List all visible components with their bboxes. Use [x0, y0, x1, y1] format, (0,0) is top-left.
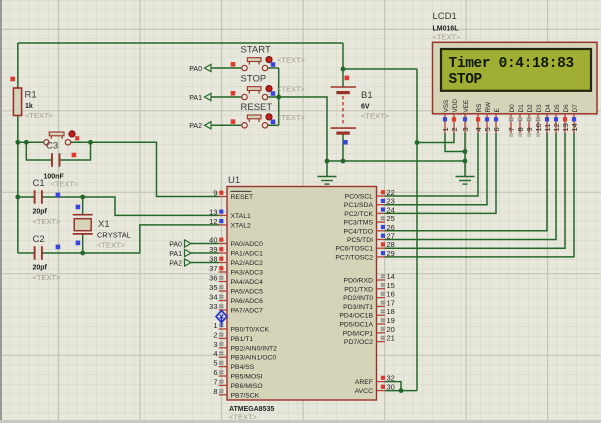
wire to XTAL1 [83, 197, 219, 215]
svg-text:29: 29 [387, 249, 395, 258]
svg-text:PC7/TOSC2: PC7/TOSC2 [335, 254, 373, 261]
wire PC0 to LCD RS [385, 133, 478, 196]
svg-text:32: 32 [387, 374, 395, 383]
push button RESET [248, 119, 250, 122]
microcontroller U1 body [227, 187, 377, 401]
svg-text:PA1/ADC1: PA1/ADC1 [231, 251, 264, 258]
svg-text:24: 24 [387, 205, 395, 214]
svg-text:<TEXT>: <TEXT> [33, 273, 62, 282]
svg-text:6: 6 [492, 127, 501, 131]
LCD pin 5 RW [483, 101, 492, 133]
wire PC6 to LCD D6 [385, 133, 565, 248]
LCD pin 6 E [492, 108, 501, 133]
svg-text:18: 18 [387, 307, 395, 316]
svg-text:38: 38 [209, 255, 217, 264]
svg-text:13: 13 [209, 207, 217, 216]
svg-text:13: 13 [561, 123, 570, 131]
svg-text:3: 3 [461, 127, 470, 131]
svg-text:5: 5 [483, 127, 492, 131]
marker B1 red [345, 76, 350, 81]
svg-text:1k: 1k [25, 103, 33, 110]
svg-text:PD4/OC1B: PD4/OC1B [339, 313, 373, 320]
terminal PA1 at MCU [185, 249, 192, 256]
junction C3 branch left [24, 140, 29, 145]
marker button red circle aux [75, 136, 79, 140]
svg-text:36: 36 [209, 274, 217, 283]
wire C1 left [18, 196, 35, 198]
LCD pin 12 D5 [552, 104, 561, 133]
pin 9 RESET [213, 189, 253, 202]
wire PC5 to LCD D5 [385, 133, 556, 240]
svg-text:14: 14 [387, 272, 395, 281]
svg-text:PB7/SCK: PB7/SCK [231, 392, 260, 399]
svg-text:PA2: PA2 [189, 123, 202, 130]
LCD pin 9 D2 [525, 104, 534, 137]
svg-text:CRYSTAL: CRYSTAL [97, 231, 131, 240]
pin 6 PB5/MOSI [213, 368, 262, 381]
wire ground rail [327, 160, 465, 162]
svg-text:D1: D1 [518, 104, 525, 113]
junction crystal top [80, 195, 85, 200]
svg-text:<TEXT>: <TEXT> [97, 241, 126, 250]
svg-text:27: 27 [387, 232, 395, 241]
svg-text:PC5/TDI: PC5/TDI [347, 237, 373, 244]
svg-text:7: 7 [507, 127, 516, 131]
svg-text:LCD1: LCD1 [433, 11, 457, 22]
svg-text:PB5/MOSI: PB5/MOSI [231, 374, 263, 381]
pin 14 PD0/RXD [344, 272, 395, 285]
LCD pin 11 D4 [543, 104, 552, 133]
pin 2 PB1/T1 [213, 330, 253, 343]
wire PC4 to LCD D4 [385, 133, 547, 231]
capacitor C3 plates [51, 153, 53, 167]
svg-text:RESET: RESET [231, 194, 254, 201]
svg-text:4: 4 [474, 127, 483, 131]
pin 37 PA3/ADC3 [209, 264, 263, 277]
svg-text:PA1: PA1 [189, 95, 202, 102]
capacitor C2 [34, 246, 36, 260]
wire VCC top rail [18, 42, 343, 44]
svg-text:C3: C3 [46, 141, 58, 152]
terminal PA0 at MCU [185, 240, 192, 247]
terminal PA1 at button [205, 93, 212, 100]
svg-text:6: 6 [213, 368, 217, 377]
wire VCC to LCD column [343, 68, 417, 70]
svg-text:19: 19 [387, 316, 395, 325]
wire ground stub [326, 161, 328, 177]
pin 22 PC0/SCL [345, 188, 395, 201]
svg-text:21: 21 [387, 334, 395, 343]
wire R1 top lead [17, 43, 19, 88]
pin 35 PA5/ADC5 [209, 283, 263, 296]
LCD pin 3 VEE [461, 100, 470, 133]
svg-text:PB2/AIN0/INT2: PB2/AIN0/INT2 [231, 345, 278, 352]
LCD pin 10 D3 [534, 104, 543, 137]
svg-text:PA4/ADC4: PA4/ADC4 [231, 279, 264, 286]
wire to reset button left [18, 141, 44, 143]
terminal PA2 at button [205, 122, 212, 129]
svg-text:D0: D0 [509, 104, 516, 113]
svg-text:33: 33 [209, 302, 217, 311]
pin 23 PC1/SDA [344, 197, 395, 210]
svg-text:X1: X1 [98, 219, 110, 230]
svg-text:B1: B1 [361, 90, 373, 101]
marker C2 blue [56, 245, 61, 250]
svg-text:Timer 0:4:18:83: Timer 0:4:18:83 [449, 56, 574, 72]
junction crystal bottom [80, 251, 85, 256]
svg-text:STOP: STOP [241, 74, 267, 85]
pin 8 PB7/SCK [213, 387, 259, 400]
LCD pin 1 VSS [441, 100, 450, 133]
pin 26 PC4/TDO [344, 223, 395, 236]
svg-text:<TEXT>: <TEXT> [25, 111, 54, 120]
wire RESET button to common [268, 124, 279, 126]
wire C3 branch left [26, 142, 52, 160]
junction buttons common [276, 95, 281, 100]
wire crystal top lead [82, 197, 84, 215]
marker RESET blue [271, 120, 276, 125]
capacitor C1 [34, 190, 36, 204]
svg-text:PA0/ADC0: PA0/ADC0 [231, 241, 264, 248]
svg-text:PB1/T1: PB1/T1 [231, 336, 254, 343]
svg-text:C2: C2 [33, 234, 45, 245]
pin 39 PA1/ADC1 [209, 245, 263, 258]
wire AREF to AVCC [385, 382, 401, 391]
marker C3 red [72, 153, 77, 158]
terminal PA2 at MCU [185, 259, 192, 266]
pin 19 PD5/OC1A [339, 316, 394, 329]
resistor R1 [13, 88, 21, 116]
svg-text:1: 1 [441, 127, 450, 131]
pin 33 PA7/ADC7 [209, 302, 263, 315]
svg-text:<TEXT>: <TEXT> [277, 85, 306, 94]
LCD pin 2 VDD [450, 99, 459, 133]
wire PA0 terminal to START [211, 67, 242, 69]
svg-text:PA7/ADC7: PA7/ADC7 [231, 308, 264, 315]
wire PA0 to MCU [191, 243, 219, 245]
svg-text:PD7/OC2: PD7/OC2 [344, 339, 373, 346]
svg-text:PA3/ADC3: PA3/ADC3 [231, 270, 264, 277]
junction VSS VEE [463, 149, 468, 154]
svg-text:11: 11 [543, 124, 552, 132]
svg-text:23: 23 [387, 197, 395, 206]
push button START [248, 62, 250, 65]
svg-text:8: 8 [516, 127, 525, 131]
svg-text:PD6/ICP1: PD6/ICP1 [343, 330, 373, 337]
svg-text:2: 2 [450, 127, 459, 131]
svg-text:XTAL1: XTAL1 [231, 213, 251, 220]
svg-text:PC2/TCK: PC2/TCK [344, 211, 373, 218]
pin 7 PB6/MISO [213, 377, 262, 390]
marker X1 blue top [76, 205, 81, 210]
LCD pin 14 D7 [570, 104, 579, 133]
pin 16 PD2/INT0 [343, 290, 395, 303]
pin 18 PD4/OC1B [339, 307, 394, 320]
junction ground rail left [325, 159, 330, 164]
svg-text:PA0: PA0 [169, 241, 182, 248]
svg-text:<TEXT>: <TEXT> [361, 112, 390, 121]
wire C2 to crystal bottom [42, 252, 83, 254]
wire LCD VEE to ground [464, 133, 466, 177]
svg-text:<TEXT>: <TEXT> [33, 217, 62, 226]
wire STOP to common [268, 96, 279, 98]
svg-text:28: 28 [387, 240, 395, 249]
svg-text:20pf: 20pf [33, 209, 48, 216]
crystal X1 [73, 214, 93, 216]
wire AVCC [385, 390, 417, 392]
svg-text:<TEXT>: <TEXT> [277, 113, 306, 122]
marker STOP wire red [231, 91, 236, 96]
svg-text:39: 39 [209, 245, 217, 254]
pin 27 PC5/TDI [347, 232, 395, 245]
svg-text:PA0: PA0 [189, 66, 202, 73]
wire PA1 terminal to STOP [211, 96, 242, 98]
svg-text:34: 34 [209, 293, 217, 302]
svg-text:PD5/OC1A: PD5/OC1A [339, 322, 373, 329]
junction battery negative [341, 159, 346, 164]
svg-text:XTAL2: XTAL2 [231, 222, 251, 229]
push button STOP [248, 91, 250, 94]
svg-text:START: START [241, 45, 271, 56]
pin 32 AREF [355, 374, 395, 387]
svg-text:D2: D2 [527, 104, 534, 113]
LCD LM016L body [433, 42, 598, 114]
junction VCC battery [341, 67, 346, 72]
svg-text:U1: U1 [228, 175, 240, 186]
svg-text:AVCC: AVCC [355, 388, 373, 395]
svg-text:15: 15 [387, 281, 395, 290]
svg-text:20: 20 [387, 325, 395, 334]
svg-text:PC3/TMS: PC3/TMS [344, 220, 374, 227]
pin 17 PD3/INT1 [343, 298, 395, 311]
svg-text:17: 17 [387, 298, 395, 307]
svg-text:STOP: STOP [449, 72, 483, 88]
svg-text:RESET: RESET [241, 102, 273, 113]
marker START blue [271, 62, 276, 67]
svg-text:9: 9 [525, 127, 534, 131]
pin 30 AVCC [355, 383, 395, 396]
svg-text:22: 22 [387, 188, 395, 197]
svg-text:AREF: AREF [355, 379, 373, 386]
LCD pin 4 RS [474, 104, 483, 133]
svg-text:R1: R1 [25, 90, 37, 101]
svg-text:8: 8 [213, 387, 217, 396]
svg-text:12: 12 [209, 217, 217, 226]
svg-text:2: 2 [213, 330, 217, 339]
svg-text:VSS: VSS [443, 100, 450, 113]
wire START to common [268, 67, 279, 69]
svg-text:PA5/ADC5: PA5/ADC5 [231, 289, 264, 296]
svg-text:7: 7 [213, 377, 217, 386]
pin 15 PD1/TXD [344, 281, 395, 294]
pin 5 PB4/SS [213, 359, 254, 372]
wire battery positive lead [342, 43, 344, 87]
svg-text:1: 1 [213, 321, 217, 330]
svg-text:PA1: PA1 [169, 251, 182, 258]
pin 34 PA6/ADC6 [209, 293, 263, 306]
svg-text:D6: D6 [563, 104, 570, 113]
svg-text:<TEXT>: <TEXT> [51, 180, 80, 189]
wire buttons common to ground rail [279, 97, 327, 161]
junction reset net left [15, 140, 20, 145]
marker START wire red [231, 62, 236, 67]
svg-text:20pf: 20pf [33, 265, 48, 272]
wire VCC vertical to AVCC [416, 69, 418, 391]
svg-text:10: 10 [534, 123, 543, 131]
ground below LCD VEE [456, 176, 475, 178]
LCD pin 13 D6 [561, 104, 570, 133]
pin 4 PB3/AIN1/OC0 [213, 349, 276, 362]
svg-text:PC1/SDA: PC1/SDA [344, 202, 374, 209]
svg-text:<TEXT>: <TEXT> [229, 413, 258, 422]
pin 1 origin marker [216, 311, 227, 323]
wire to XTAL2 [83, 225, 219, 253]
svg-text:PC6/TOSC1: PC6/TOSC1 [335, 246, 373, 253]
svg-text:D3: D3 [536, 104, 543, 113]
svg-text:RS: RS [476, 104, 483, 113]
svg-text:37: 37 [209, 264, 217, 273]
pin 25 PC3/TMS [344, 214, 395, 227]
svg-text:VDD: VDD [452, 99, 459, 113]
wire PC1 to LCD RW [385, 133, 487, 205]
junction C1 left [15, 195, 20, 200]
svg-text:D4: D4 [545, 104, 552, 113]
junction C3 branch right [88, 140, 93, 145]
marker B1 blue [343, 140, 348, 145]
svg-text:PD1/TXD: PD1/TXD [344, 286, 373, 293]
marker C1 blue [56, 193, 61, 198]
svg-text:30: 30 [387, 383, 395, 392]
pin 36 PA4/ADC4 [209, 274, 263, 287]
wire left vertical R1 to C2 [17, 116, 19, 253]
pin 29 PC7/TOSC2 [335, 249, 395, 262]
wire battery negative lead [342, 135, 344, 162]
svg-text:<TEXT>: <TEXT> [277, 56, 306, 65]
pin 12 XTAL2 [209, 217, 251, 230]
svg-text:6V: 6V [361, 104, 370, 111]
svg-text:C1: C1 [33, 178, 45, 189]
svg-text:PD0/RXD: PD0/RXD [344, 278, 374, 285]
pin 28 PC6/TOSC1 [335, 240, 395, 253]
wire buttons common vertical [278, 68, 280, 125]
LCD pin 8 D1 [516, 104, 525, 137]
svg-text:5: 5 [213, 359, 217, 368]
svg-text:PA2/ADC2: PA2/ADC2 [231, 260, 264, 267]
svg-text:16: 16 [387, 290, 395, 299]
svg-text:14: 14 [570, 123, 579, 131]
marker X1 blue bottom [76, 241, 81, 246]
svg-text:VEE: VEE [463, 100, 470, 113]
terminal PA0 at button [205, 64, 212, 71]
pin 20 PD6/ICP1 [343, 325, 395, 338]
wire C1 to crystal top [42, 196, 83, 198]
wire C3 branch right [60, 142, 91, 160]
svg-text:40: 40 [209, 236, 217, 245]
svg-text:35: 35 [209, 283, 217, 292]
svg-text:PB3/AIN1/OC0: PB3/AIN1/OC0 [231, 355, 277, 362]
pin 21 PD7/OC2 [344, 334, 395, 347]
svg-text:PB4/SS: PB4/SS [231, 364, 255, 371]
svg-text:12: 12 [552, 123, 561, 131]
svg-text:4: 4 [213, 349, 217, 358]
svg-text:E: E [494, 108, 501, 112]
svg-text:PB0/T0/XCK: PB0/T0/XCK [231, 327, 270, 334]
wire PC7 to LCD D7 [385, 133, 574, 257]
svg-text:PD2/INT0: PD2/INT0 [343, 295, 373, 302]
marker R1 [10, 77, 15, 82]
svg-text:26: 26 [387, 223, 395, 232]
push button on reset net [50, 136, 52, 139]
svg-text:PA2: PA2 [169, 260, 182, 267]
wire PA1 to MCU [191, 252, 219, 254]
wire PA2 terminal to RESET button [211, 124, 242, 126]
wire LCD VDD to VCC [417, 133, 454, 143]
wire reset net to MCU RESET pin [71, 142, 219, 196]
svg-text:PB6/MISO: PB6/MISO [231, 383, 263, 390]
pin 38 PA2/ADC2 [209, 255, 263, 268]
LCD pin 7 D0 [507, 104, 516, 137]
wire C2 left [18, 252, 35, 254]
LCD screen [441, 49, 591, 91]
svg-text:D5: D5 [554, 104, 561, 113]
svg-text:<TEXT>: <TEXT> [433, 33, 462, 42]
pin 13 XTAL1 [209, 207, 251, 220]
marker RESET wire red [231, 119, 236, 124]
svg-text:PD3/INT1: PD3/INT1 [343, 304, 373, 311]
svg-text:D7: D7 [572, 104, 579, 113]
svg-text:25: 25 [387, 214, 395, 223]
svg-text:PC0/SCL: PC0/SCL [345, 194, 374, 201]
wire PC2 to LCD E [385, 133, 496, 213]
wire LCD VSS to ground [445, 133, 465, 152]
svg-text:LM016L: LM016L [433, 26, 460, 33]
svg-text:3: 3 [213, 340, 217, 349]
svg-text:RW: RW [485, 101, 492, 112]
pin 1 PB0/T0/XCK [213, 321, 269, 334]
junction VCC VDD branch [415, 140, 420, 145]
ground below button rail [318, 176, 337, 178]
battery B1 [331, 86, 356, 88]
marker STOP blue [271, 91, 276, 96]
wire PA2 to MCU [191, 262, 219, 264]
junction ground rail right [463, 159, 468, 164]
pin 40 PA0/ADC0 [209, 236, 263, 249]
svg-text:PC4/TDO: PC4/TDO [344, 228, 373, 235]
wire crystal bottom lead [82, 234, 84, 253]
svg-text:9: 9 [213, 189, 217, 198]
svg-text:PA6/ADC6: PA6/ADC6 [231, 298, 264, 305]
pin 3 PB2/AIN0/INT2 [213, 340, 277, 353]
pin 24 PC2/TCK [344, 205, 395, 218]
junction AREF AVCC [399, 388, 404, 393]
